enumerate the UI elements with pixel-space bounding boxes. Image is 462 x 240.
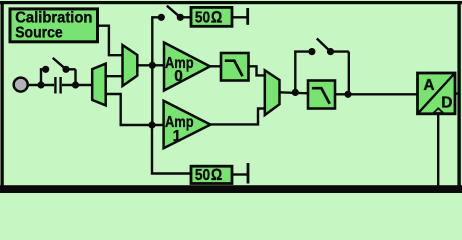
svg-text:50: 50 bbox=[195, 167, 210, 184]
svg-text:A: A bbox=[423, 77, 434, 94]
svg-text:0: 0 bbox=[174, 68, 183, 85]
svg-text:Ω: Ω bbox=[211, 166, 222, 184]
svg-text:Source: Source bbox=[15, 25, 63, 42]
svg-text:1: 1 bbox=[173, 128, 182, 145]
svg-text:Ω: Ω bbox=[211, 9, 222, 27]
svg-text:50: 50 bbox=[195, 10, 210, 27]
svg-text:D: D bbox=[441, 94, 452, 111]
